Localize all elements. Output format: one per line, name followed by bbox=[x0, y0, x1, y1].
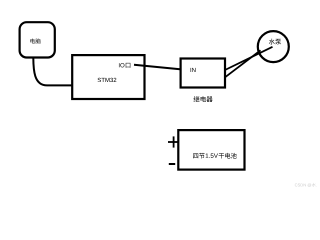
watermark CSDN bbox=[295, 183, 317, 187]
battery minus terminal bbox=[169, 163, 175, 165]
pin label IO口 bbox=[118, 63, 121, 67]
wire relay to pump upper bbox=[225, 47, 273, 70]
pump label 水泵 bbox=[269, 39, 281, 45]
wire relay to pump lower bbox=[225, 50, 261, 77]
battery plus terminal bbox=[168, 136, 178, 147]
label 继电器 bbox=[194, 96, 213, 102]
MCU box STM32 bbox=[72, 55, 144, 99]
battery label 四节1.5V干电池 bbox=[193, 153, 236, 159]
pin label IN bbox=[190, 68, 193, 72]
battery box bbox=[178, 130, 244, 170]
wire IO to relay IN bbox=[134, 65, 190, 70]
computer box 电脑 bbox=[20, 22, 55, 57]
relay box bbox=[181, 59, 225, 88]
pump circle 水泵 bbox=[258, 31, 289, 62]
wire computer to STM32 bbox=[33, 58, 72, 86]
